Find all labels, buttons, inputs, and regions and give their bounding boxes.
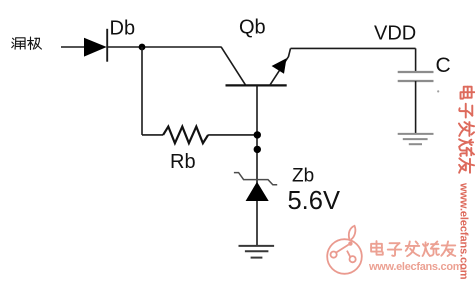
svg-text:www.elecfans.com: www.elecfans.com <box>368 261 463 273</box>
wire to resistor <box>142 134 163 136</box>
watermark vertical red column (right edge) <box>458 87 475 280</box>
ground (main, under zener) <box>239 246 275 258</box>
svg-text:C: C <box>436 54 451 77</box>
wire resistor to center node <box>208 134 257 136</box>
transistor Qb base bar <box>226 84 287 86</box>
capacitor C plate 1 <box>398 71 434 73</box>
ground (capacitor) <box>398 134 434 144</box>
zener Zb triangle <box>246 182 269 201</box>
capacitor C plate 2 <box>398 80 434 82</box>
wire from 漏极 to diode D b <box>61 46 84 48</box>
zener Zb cathode bar with bent ends <box>234 173 277 185</box>
watermark logo dot <box>348 241 352 245</box>
resistor Rb zigzag <box>163 127 208 144</box>
wire junction down to resistor level <box>141 47 143 135</box>
wire diode to collector bend <box>107 46 221 48</box>
stray gray dot <box>437 90 439 92</box>
transistor Qb collector diagonal <box>221 47 246 86</box>
svg-text:Qb: Qb <box>239 16 266 38</box>
diode Db triangle <box>84 38 107 57</box>
svg-text:Rb: Rb <box>170 151 196 173</box>
svg-text:Db: Db <box>110 17 136 39</box>
transistor Qb emitter diagonal <box>270 48 291 85</box>
svg-text:VDD: VDD <box>374 22 416 44</box>
svg-text:www.elecfans.com: www.elecfans.com <box>458 182 470 280</box>
diode Db cathode bar <box>106 29 108 62</box>
transistor Qb emitter arrow <box>272 58 287 73</box>
wire capacitor to ground <box>415 81 417 134</box>
svg-text:5.6V: 5.6V <box>288 187 340 215</box>
svg-text:Zb: Zb <box>292 165 314 186</box>
watermark text 电子发烧友 (horizontal) <box>371 241 455 256</box>
node junction dot at diode output <box>139 44 146 51</box>
node dot above zener <box>254 146 261 153</box>
node dot at resistor junction <box>254 131 261 138</box>
center column wire (base node down to ground) <box>256 85 258 246</box>
watermark logo circle (elecfans) <box>327 226 362 274</box>
wire emitter to VDD rail and capacitor <box>291 47 416 49</box>
wire down to capacitor <box>415 48 417 72</box>
label 漏极 (drain) <box>12 37 42 49</box>
